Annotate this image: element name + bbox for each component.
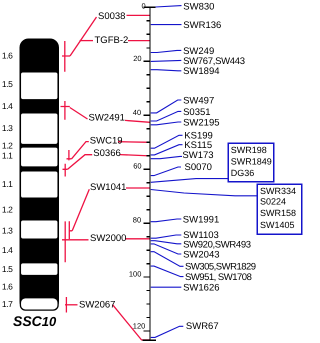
- svg-text:S0070: S0070: [185, 162, 212, 173]
- svg-text:DG36: DG36: [231, 168, 255, 178]
- leader SW2067: [65, 304, 78, 306]
- minor tick 5: [146, 20, 150, 22]
- svg-text:1.6: 1.6: [2, 51, 13, 61]
- svg-text:SW951, SW1708: SW951, SW1708: [185, 272, 252, 283]
- svg-text:S0366: S0366: [93, 148, 120, 159]
- svg-text:1.2: 1.2: [2, 141, 13, 151]
- minor tick 30: [146, 87, 150, 89]
- svg-text:1.3: 1.3: [2, 123, 13, 133]
- major tick 80: [144, 222, 150, 224]
- line SW1041 to axis: [126, 187, 150, 189]
- minor tick 35: [146, 101, 150, 103]
- svg-text:20: 20: [133, 54, 141, 63]
- svg-text:SW1626: SW1626: [183, 283, 219, 294]
- svg-text:SWR198: SWR198: [231, 145, 267, 155]
- leader SW2491: [70, 108, 88, 120]
- axis bottom cap: [142, 339, 156, 341]
- minor tick 55: [146, 155, 150, 157]
- svg-text:1.5: 1.5: [2, 264, 13, 274]
- leader SW1041: [72, 189, 89, 231]
- leader TGFB-2: [80, 40, 93, 42]
- minor tick 25: [146, 74, 150, 76]
- svg-text:SW2491: SW2491: [89, 113, 125, 124]
- axis top cap: [144, 6, 156, 8]
- svg-text:S0038: S0038: [98, 11, 125, 22]
- svg-text:SW2195: SW2195: [183, 117, 219, 128]
- line S0366 to axis: [120, 155, 150, 156]
- svg-text:1.1: 1.1: [2, 151, 13, 161]
- connector SW1991: [151, 219, 182, 222]
- svg-text:SW1991: SW1991: [183, 214, 219, 225]
- line S0038 to axis: [127, 14, 151, 16]
- band q1.1 (white): [20, 171, 58, 198]
- connector KS199: [151, 135, 183, 148]
- connector SW1626: [151, 286, 182, 288]
- minor tick 95: [146, 263, 150, 265]
- band q1.3 (white): [20, 220, 58, 239]
- svg-text:SWR334: SWR334: [260, 186, 296, 196]
- svg-text:1.5: 1.5: [2, 79, 13, 89]
- svg-text:60: 60: [133, 162, 141, 171]
- band p1.5 (white): [20, 72, 58, 100]
- svg-text:120: 120: [133, 321, 146, 330]
- connector SWR67: [151, 326, 184, 337]
- major tick 20: [144, 60, 150, 62]
- minor tick 10: [146, 33, 150, 35]
- svg-text:40: 40: [133, 108, 141, 117]
- connector KS115: [151, 145, 183, 155]
- bracket band p1.4 (SW2491): [61, 101, 70, 120]
- minor tick 105: [146, 290, 150, 292]
- svg-text:SWR158: SWR158: [260, 208, 296, 218]
- connector SW920,SWR493: [151, 241, 182, 244]
- connector SW249: [151, 50, 182, 52]
- svg-text:1.1: 1.1: [2, 179, 13, 189]
- svg-text:SWC19: SWC19: [90, 135, 123, 146]
- line SW2491 to axis: [125, 120, 150, 122]
- minor tick 50: [146, 141, 150, 143]
- major tick 60: [144, 168, 150, 170]
- connector S0351: [151, 111, 182, 121]
- line SWC19 to axis: [118, 141, 150, 144]
- major tick 100: [144, 276, 150, 278]
- svg-text:TGFB-2: TGFB-2: [95, 35, 129, 46]
- chromosome SSC10 ideogram body: [20, 39, 60, 311]
- leader SWC19: [72, 142, 89, 159]
- svg-text:1.7: 1.7: [2, 299, 13, 309]
- svg-text:SWR1849: SWR1849: [231, 157, 272, 167]
- bracket band q1.3 (SW1041): [69, 221, 72, 239]
- minor tick 110: [146, 303, 150, 305]
- bracket band p1.1 (SWC19): [67, 150, 72, 160]
- major tick 40: [144, 114, 150, 116]
- connector SW497: [151, 100, 182, 113]
- svg-text:1.6: 1.6: [2, 281, 13, 291]
- svg-text:SSC10: SSC10: [13, 313, 57, 329]
- connector SW305,SWR1829: [151, 252, 184, 267]
- svg-text:S0351: S0351: [183, 107, 210, 118]
- connector S0070: [151, 167, 181, 176]
- line TGFB-2 to axis: [128, 40, 150, 42]
- band q1.5 (white): [20, 263, 58, 276]
- leader SW2000: [65, 239, 88, 241]
- svg-text:S0224: S0224: [260, 197, 286, 207]
- svg-text:1.2: 1.2: [2, 204, 13, 214]
- svg-text:100: 100: [129, 270, 142, 279]
- svg-text:80: 80: [133, 216, 141, 225]
- connector box SWR198 group: [151, 179, 228, 183]
- connector SWR136: [151, 24, 182, 26]
- svg-text:SW1405: SW1405: [260, 220, 295, 230]
- connector SW767,SW443: [151, 60, 182, 61]
- svg-text:SW1041: SW1041: [90, 182, 126, 193]
- line SW2067 to axis: [113, 305, 151, 340]
- connector box SWR334 group: [151, 190, 257, 196]
- svg-text:0: 0: [142, 2, 146, 11]
- connector SW1894: [151, 70, 182, 71]
- svg-text:SW2000: SW2000: [90, 233, 126, 244]
- svg-text:SW830: SW830: [183, 1, 214, 12]
- box group SWR334/S0224/SWR158/SW1405: [257, 184, 302, 234]
- band p1.3 (white): [20, 113, 58, 145]
- bracket bands q1.3-q1.4 (SW2000): [62, 221, 65, 262]
- connector SW951,SW1708: [151, 266, 184, 277]
- connector SW173: [151, 156, 182, 158]
- connector SW1103: [151, 235, 182, 238]
- linkage map axis: [149, 7, 151, 340]
- svg-text:SWR67: SWR67: [186, 321, 219, 332]
- major tick 120: [144, 330, 150, 332]
- bracket band p1.6 (S0038/TGFB-2): [62, 41, 70, 72]
- minor tick 45: [146, 128, 150, 130]
- svg-text:SW497: SW497: [183, 95, 214, 106]
- bracket band q1.7 (SW2067): [65, 297, 67, 313]
- connector SW2195: [151, 122, 182, 125]
- svg-text:SW1894: SW1894: [183, 66, 219, 77]
- svg-text:SW2067: SW2067: [79, 299, 115, 310]
- minor tick 85: [146, 236, 150, 238]
- band p1.1 (white): [20, 147, 58, 167]
- svg-text:1.4: 1.4: [2, 245, 13, 255]
- leader S0038: [70, 17, 97, 56]
- minor tick 115: [146, 317, 150, 319]
- svg-text:SW173: SW173: [182, 150, 213, 161]
- svg-text:1.4: 1.4: [2, 101, 13, 111]
- minor tick 15: [146, 47, 150, 49]
- minor tick 65: [146, 182, 150, 184]
- connector SW830: [156, 6, 182, 7]
- minor tick 90: [146, 249, 150, 251]
- svg-text:1.3: 1.3: [2, 225, 13, 235]
- leader S0366: [68, 155, 93, 170]
- box group SWR198/SWR1849/DG36: [228, 143, 273, 181]
- line SW2000 to axis: [125, 238, 150, 240]
- minor tick 70: [146, 195, 150, 197]
- bracket centromere (S0366): [63, 164, 68, 177]
- band q1.7 (white, rounded bottom): [20, 298, 58, 310]
- svg-text:SW2043: SW2043: [183, 249, 219, 260]
- svg-text:SWR136: SWR136: [183, 20, 221, 31]
- minor tick 75: [146, 209, 150, 211]
- connector SW2043: [151, 244, 182, 254]
